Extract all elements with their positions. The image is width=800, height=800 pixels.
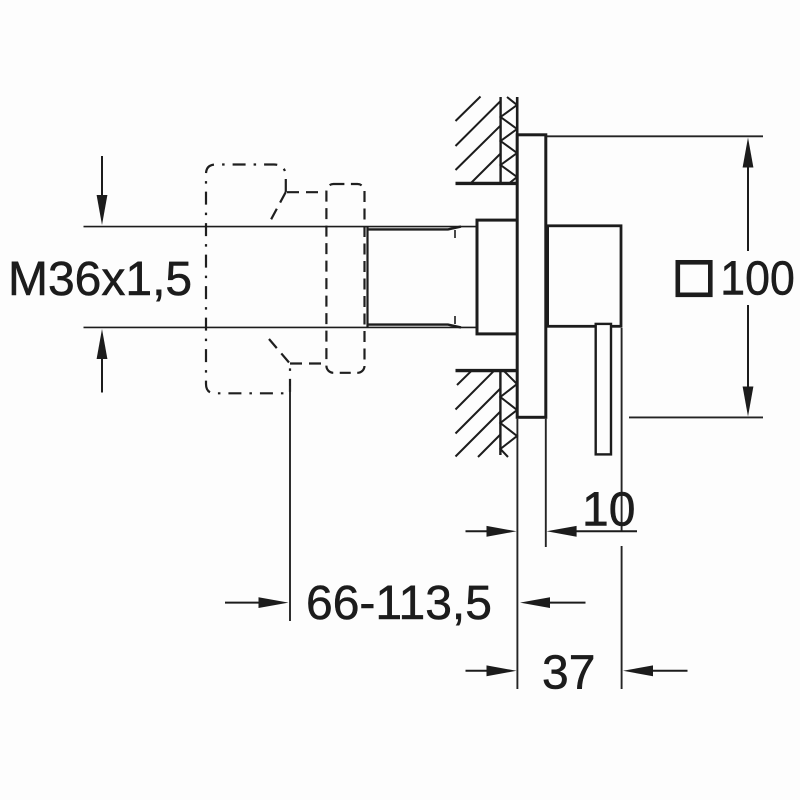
- top chamfer: [271, 192, 286, 221]
- extension lines: [290, 136, 763, 689]
- adjustment sleeve dashed box: [326, 184, 364, 373]
- dimension M36x1,5: [97, 156, 108, 393]
- top step: [287, 191, 322, 193]
- upper wall hatch: [456, 97, 519, 184]
- thread major line bottom: [369, 325, 462, 328]
- square symbol: [678, 262, 711, 295]
- handle lever: [596, 324, 611, 455]
- plate rear extension down: [545, 419, 547, 547]
- flange nut: [477, 220, 518, 334]
- housing rear extension down: [289, 386, 291, 621]
- bottom chamfer: [269, 339, 289, 363]
- lower wall hatch: [456, 371, 518, 457]
- bottom extension for 100: [629, 416, 763, 418]
- thread end tick top: [454, 230, 456, 238]
- top extension for 100: [547, 135, 764, 137]
- svg-text:37: 37: [542, 647, 595, 700]
- valve shank (threaded): [84, 226, 478, 328]
- handle hub: [548, 226, 621, 326]
- hub front extension down: [621, 328, 623, 531]
- wall face extension down: [516, 419, 518, 689]
- svg-text:100: 100: [720, 251, 794, 305]
- thread root line bottom / M36 extension line: [84, 326, 478, 328]
- thread major line top: [369, 227, 462, 230]
- svg-text:M36x1,5: M36x1,5: [8, 253, 192, 306]
- wall plate (escutcheon, side view): [517, 135, 546, 418]
- svg-text:66-113,5: 66-113,5: [306, 577, 492, 630]
- thread root line top / M36 extension line: [84, 226, 478, 228]
- dimension 100: [743, 138, 754, 417]
- bottom step: [290, 362, 322, 364]
- dimension 10: [466, 526, 638, 537]
- dimension 37: [466, 665, 688, 676]
- concealed body dashed outline (rough-in housing): [206, 165, 365, 394]
- svg-text:10: 10: [582, 484, 635, 537]
- thread end tick bottom: [454, 316, 456, 324]
- shank left edge: [366, 226, 368, 328]
- dimension 66-113,5: [225, 597, 586, 608]
